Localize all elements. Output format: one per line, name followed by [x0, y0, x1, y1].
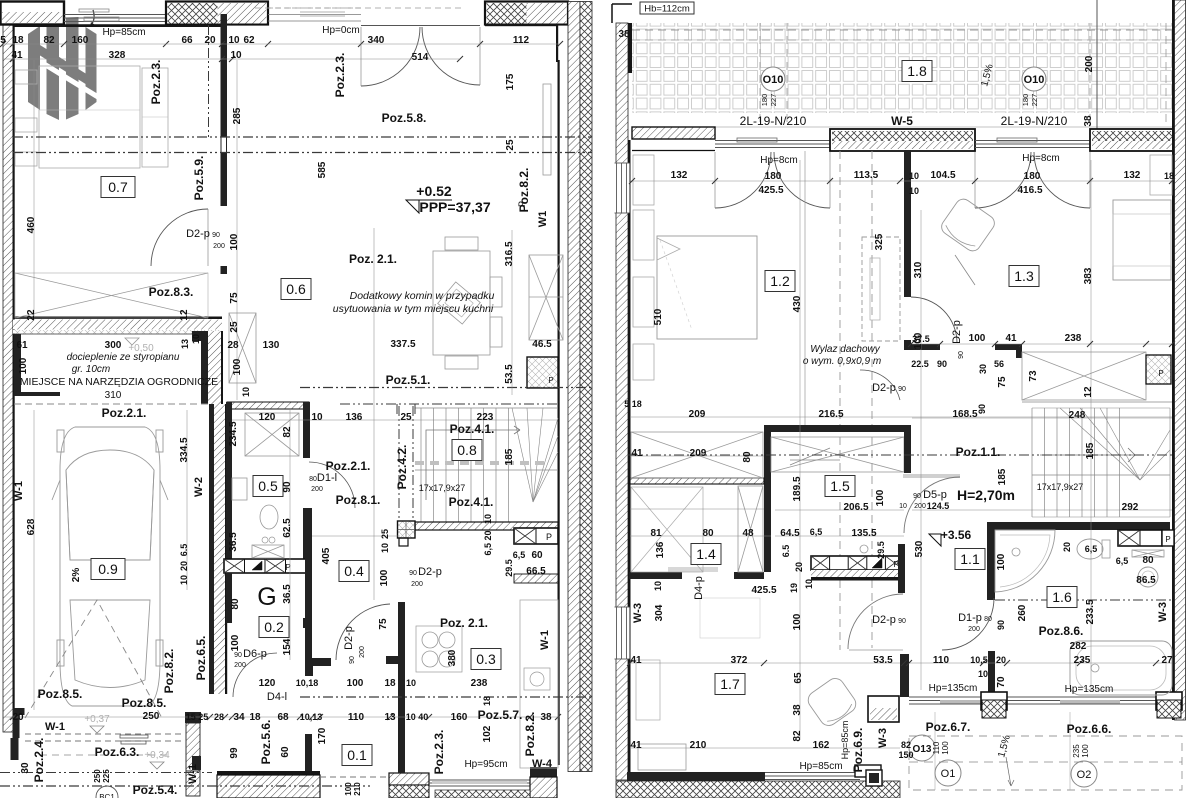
svg-text:210: 210 [353, 782, 362, 796]
bottom window W-4 strip [429, 779, 530, 781]
svg-text:61: 61 [16, 340, 28, 351]
svg-text:64.5: 64.5 [780, 528, 800, 539]
svg-text:41: 41 [630, 740, 642, 751]
bottom wall window band right plan [909, 696, 1156, 698]
svg-text:12: 12 [179, 309, 190, 321]
bottom wall left plan [217, 771, 320, 775]
svg-text:13: 13 [384, 712, 396, 723]
svg-text:310: 310 [105, 390, 122, 401]
svg-text:20: 20 [204, 35, 216, 46]
kitchen X top [771, 437, 904, 472]
svg-text:90: 90 [977, 404, 987, 414]
terrace X Poz.8.3 [15, 273, 208, 318]
svg-text:1.2: 1.2 [770, 273, 790, 289]
svg-text:175: 175 [505, 73, 516, 90]
svg-text:81: 81 [650, 528, 662, 539]
svg-text:36.5: 36.5 [228, 532, 239, 552]
svg-text:248: 248 [1069, 410, 1086, 421]
svg-text:O13: O13 [913, 744, 932, 755]
bathroom 0.5 right wall + door D1-l [303, 402, 310, 458]
svg-text:D6-p: D6-p [243, 648, 267, 660]
svg-text:1.7: 1.7 [720, 676, 740, 692]
svg-text:25: 25 [400, 412, 412, 423]
svg-text:Hp=85cm: Hp=85cm [102, 27, 145, 38]
svg-text:W1: W1 [537, 211, 549, 228]
car in garage [52, 427, 168, 706]
wall under stairs [415, 522, 558, 530]
svg-text:Wylaz dachowy: Wylaz dachowy [810, 344, 880, 355]
kitchen top wall [764, 425, 911, 432]
svg-text:100: 100 [347, 678, 364, 689]
svg-text:180: 180 [765, 171, 782, 182]
svg-text:10: 10 [653, 581, 663, 591]
svg-text:135.5: 135.5 [851, 528, 876, 539]
top wall inner edge line [13, 25, 222, 27]
svg-text:25: 25 [380, 529, 390, 539]
svg-text:425.5: 425.5 [751, 585, 776, 596]
svg-text:110: 110 [933, 655, 950, 666]
svg-text:189.5: 189.5 [792, 476, 803, 501]
svg-text:180: 180 [760, 94, 769, 107]
svg-text:D4-l: D4-l [267, 691, 287, 703]
svg-text:90: 90 [913, 493, 921, 500]
svg-text:2L-19-N/210: 2L-19-N/210 [1001, 114, 1068, 128]
door D2-p to 1.3 [911, 297, 957, 343]
svg-text:62.5: 62.5 [282, 518, 293, 538]
svg-text:0.1: 0.1 [347, 747, 367, 763]
bath 1.6 door D1-p [942, 598, 994, 650]
svg-text:W-1: W-1 [45, 721, 65, 733]
svg-text:328: 328 [109, 50, 126, 61]
svg-text:2%: 2% [71, 568, 82, 583]
svg-text:200: 200 [1084, 55, 1095, 72]
svg-text:585: 585 [317, 161, 328, 178]
svg-text:20: 20 [12, 712, 24, 723]
eaves line above top wall [255, 7, 462, 9]
svg-text:Poz.2.3.: Poz.2.3. [333, 53, 347, 98]
bathroom 0.5 fixtures [232, 478, 247, 500]
svg-text:Poz.8.5.: Poz.8.5. [122, 696, 167, 710]
garage top dashed opening [14, 403, 209, 405]
step corner top right [485, 24, 558, 26]
svg-text:227: 227 [769, 94, 778, 107]
svg-text:25: 25 [229, 321, 240, 333]
svg-text:W-3: W-3 [877, 728, 889, 748]
logo monogram [28, 17, 97, 120]
svg-text:102: 102 [482, 725, 493, 742]
svg-text:10,13: 10,13 [300, 712, 323, 722]
dashed wardrobe corridor [862, 237, 900, 341]
svg-text:O2: O2 [1077, 769, 1092, 781]
svg-text:19: 19 [789, 583, 799, 593]
svg-text:6,5: 6,5 [1116, 556, 1129, 566]
svg-text:10: 10 [311, 412, 323, 423]
svg-text:200: 200 [234, 662, 246, 669]
svg-text:41: 41 [1005, 333, 1017, 344]
svg-text:154: 154 [282, 638, 293, 655]
P column right band [514, 528, 558, 544]
svg-text:18: 18 [482, 696, 492, 706]
corridor 1.1 left wall [987, 530, 995, 600]
svg-text:100: 100 [229, 233, 240, 250]
svg-text:90: 90 [958, 351, 965, 359]
RIGHT PLAN west exterior wall [616, 23, 628, 780]
svg-text:210: 210 [690, 740, 707, 751]
central wall x305 [305, 508, 312, 658]
svg-text:90: 90 [282, 481, 293, 493]
svg-text:0.8: 0.8 [457, 442, 477, 458]
svg-text:Poz.5.7.: Poz.5.7. [478, 708, 523, 722]
svg-text:170: 170 [317, 727, 328, 744]
svg-text:10: 10 [909, 171, 919, 181]
svg-text:75: 75 [229, 292, 240, 304]
svg-text:100: 100 [1081, 744, 1090, 758]
armchair rotated 0.6 [438, 282, 481, 324]
bathtub Poz.8.6 [1070, 641, 1172, 695]
svg-text:17x17,9x27: 17x17,9x27 [419, 483, 466, 493]
svg-text:Poz.2.4.: Poz.2.4. [32, 738, 46, 783]
terrace dashed inner boundary [759, 23, 761, 127]
1.7 bottom wall [627, 772, 765, 781]
svg-text:80: 80 [1142, 555, 1154, 566]
svg-text:38: 38 [618, 29, 630, 40]
svg-text:0.7: 0.7 [108, 179, 128, 195]
svg-text:162: 162 [813, 740, 830, 751]
svg-text:90: 90 [409, 570, 417, 577]
insulated block top 1 [166, 2, 268, 25]
svg-text:gr. 10cm: gr. 10cm [72, 364, 111, 375]
svg-text:200: 200 [968, 626, 980, 633]
svg-text:20: 20 [1062, 542, 1072, 552]
closet X near 130 [229, 313, 256, 383]
room boundary thin line 0.6/0.4 [373, 228, 375, 600]
svg-text:100: 100 [18, 357, 29, 374]
window W1 marking [543, 84, 551, 175]
svg-text:D2-p: D2-p [343, 626, 355, 650]
svg-text:18: 18 [12, 35, 24, 46]
garage right wall [209, 404, 214, 694]
svg-text:o wym. 0,9x0,9 m: o wym. 0,9x0,9 m [803, 356, 881, 367]
svg-text:Hp=95cm: Hp=95cm [464, 759, 507, 770]
top-left corner block [1, 2, 65, 25]
svg-text:0.5: 0.5 [258, 478, 278, 494]
svg-text:36.5: 36.5 [282, 584, 293, 604]
svg-text:H=2,70m: H=2,70m [957, 487, 1015, 503]
insulated block top 2 [485, 2, 568, 25]
svg-text:200: 200 [311, 486, 323, 493]
svg-text:P: P [548, 376, 553, 385]
svg-text:334.5: 334.5 [179, 437, 190, 462]
svg-text:112: 112 [513, 35, 530, 46]
svg-text:41: 41 [631, 448, 643, 459]
svg-text:Poz.2.1.: Poz.2.1. [326, 459, 371, 473]
top opening Hp=0cm [268, 14, 361, 16]
svg-text:G: G [257, 583, 276, 611]
svg-text:O1: O1 [941, 768, 956, 780]
table + chairs room 0.6 [433, 251, 490, 355]
svg-text:132: 132 [1124, 170, 1141, 181]
svg-text:Hp=135cm: Hp=135cm [1065, 684, 1114, 695]
svg-text:82: 82 [901, 740, 911, 750]
chimney square P room 0.6 [527, 357, 558, 388]
svg-text:180: 180 [1021, 94, 1030, 107]
svg-text:209: 209 [690, 448, 707, 459]
svg-text:Poz.2.3.: Poz.2.3. [432, 730, 446, 775]
Hb box top [640, 2, 694, 14]
svg-text:10: 10 [406, 678, 416, 688]
svg-text:Poz.2.1.: Poz.2.1. [102, 406, 147, 420]
svg-text:D2-p: D2-p [418, 566, 442, 578]
svg-text:D1-l: D1-l [317, 472, 337, 484]
svg-text:310: 310 [913, 261, 924, 278]
svg-text:227: 227 [1030, 94, 1039, 107]
wardrobe wall 1.2 bottom [630, 478, 764, 484]
svg-text:D5-p: D5-p [923, 489, 947, 501]
svg-text:25: 25 [505, 139, 516, 151]
svg-text:18: 18 [384, 678, 396, 689]
interior wall 0.7/hall vertical [221, 14, 228, 206]
svg-text:628: 628 [26, 518, 37, 535]
svg-text:20: 20 [794, 562, 804, 572]
svg-text:82: 82 [282, 426, 293, 438]
svg-text:10: 10 [899, 503, 907, 510]
svg-text:O10: O10 [763, 74, 784, 86]
svg-text:10: 10 [483, 514, 493, 524]
svg-text:10: 10 [179, 575, 189, 585]
svg-text:530: 530 [914, 540, 925, 557]
svg-text:100: 100 [913, 332, 924, 349]
svg-text:316.5: 316.5 [504, 241, 515, 266]
svg-text:Poz.8.1.: Poz.8.1. [336, 493, 381, 507]
svg-text:Poz.5.9.: Poz.5.9. [192, 156, 206, 201]
svg-text:6,5 20: 6,5 20 [483, 530, 493, 555]
driveway dashed triangle [25, 600, 162, 718]
svg-text:Poz.1.1.: Poz.1.1. [956, 445, 1001, 459]
bottom vertical wall x398 [398, 602, 405, 773]
svg-text:185: 185 [997, 468, 1008, 485]
svg-text:Poz.5.1.: Poz.5.1. [386, 373, 431, 387]
svg-text:38: 38 [540, 712, 552, 723]
svg-text:216.5: 216.5 [818, 409, 843, 420]
stairs 0.8 [420, 408, 422, 522]
svg-text:150: 150 [898, 750, 913, 760]
svg-text:56: 56 [994, 359, 1004, 369]
svg-text:282: 282 [1070, 641, 1087, 652]
svg-text:430: 430 [792, 295, 803, 312]
1.4 closet X left [631, 487, 703, 572]
door D6-p [233, 653, 277, 697]
svg-text:100: 100 [379, 569, 390, 586]
south wall of room 0.7 + insulation [13, 317, 222, 320]
shower 1.1? small table [700, 598, 760, 638]
svg-text:P: P [893, 560, 898, 569]
svg-text:Poz.4.1.: Poz.4.1. [450, 422, 495, 436]
svg-text:60: 60 [531, 550, 543, 561]
svg-text:Poz. 2.1.: Poz. 2.1. [440, 616, 488, 630]
svg-text:PPP=37,37: PPP=37,37 [419, 199, 490, 215]
svg-text:1.8: 1.8 [907, 63, 927, 79]
svg-text:28: 28 [214, 712, 224, 722]
svg-text:O10: O10 [1024, 74, 1045, 86]
svg-text:1.3: 1.3 [1014, 268, 1034, 284]
svg-text:124.5: 124.5 [927, 501, 950, 511]
svg-text:53.5: 53.5 [873, 655, 893, 666]
bed room 0.7 [39, 66, 140, 168]
kitchen/1.4 vertical wall [764, 432, 771, 572]
P shaft band [224, 559, 306, 573]
svg-text:+0,37: +0,37 [84, 714, 110, 725]
svg-text:292: 292 [1122, 502, 1139, 513]
svg-text:Poz.4.1.: Poz.4.1. [449, 495, 494, 509]
svg-text:136: 136 [346, 412, 363, 423]
svg-text:BC1: BC1 [99, 793, 115, 798]
tool room walls [14, 334, 21, 396]
svg-text:132: 132 [671, 170, 688, 181]
svg-text:233.5: 233.5 [1085, 599, 1096, 624]
svg-text:10,18: 10,18 [296, 678, 319, 688]
svg-text:10: 10 [228, 35, 240, 46]
svg-text:10,5: 10,5 [970, 655, 988, 665]
svg-text:86.5: 86.5 [1136, 575, 1156, 586]
svg-text:110: 110 [932, 741, 941, 754]
corridor 1.1 top wall [987, 522, 1170, 530]
svg-text:D2-p: D2-p [186, 228, 210, 240]
bath 1.6 fixtures [995, 530, 1055, 592]
furniture marks above top wall [79, 9, 109, 12]
svg-text:90: 90 [937, 359, 947, 369]
svg-text:0.6: 0.6 [286, 281, 306, 297]
svg-text:34: 34 [233, 712, 245, 723]
svg-text:0.2: 0.2 [264, 619, 284, 635]
svg-text:10: 10 [909, 186, 919, 196]
balcony door 2 [975, 140, 1090, 142]
svg-text:68: 68 [277, 712, 289, 723]
kitchen X wardrobe right wall [529, 255, 563, 340]
svg-text:185: 185 [504, 448, 515, 465]
bottom piers [981, 692, 1007, 710]
svg-text:325: 325 [874, 233, 885, 250]
entry stub wall bottom-left plan [185, 712, 201, 723]
svg-text:185: 185 [1085, 442, 1096, 459]
svg-text:+0,34: +0,34 [144, 750, 170, 761]
svg-text:66.5: 66.5 [526, 566, 546, 577]
svg-text:38: 38 [1083, 115, 1094, 127]
svg-text:120: 120 [259, 412, 276, 423]
svg-text:80: 80 [309, 476, 317, 483]
svg-text:22.5: 22.5 [911, 359, 929, 369]
svg-text:P: P [517, 201, 527, 207]
W-5 wall band right insulated [1090, 129, 1181, 151]
svg-text:100: 100 [941, 741, 950, 755]
svg-text:D2-p: D2-p [951, 320, 963, 344]
svg-text:82: 82 [792, 730, 803, 742]
kitchen counter bottom cellband [811, 556, 904, 570]
svg-text:D1-p: D1-p [958, 612, 982, 624]
svg-text:29.5: 29.5 [876, 541, 886, 559]
svg-text:99: 99 [229, 747, 240, 759]
svg-text:28: 28 [227, 340, 239, 351]
svg-text:180: 180 [1024, 171, 1041, 182]
svg-text:W-1: W-1 [187, 764, 199, 784]
svg-text:2L-19-N/210: 2L-19-N/210 [740, 114, 807, 128]
svg-text:80: 80 [984, 616, 992, 623]
wall between corridor and 1.3 [904, 150, 911, 297]
svg-text:234.5: 234.5 [228, 421, 239, 446]
svg-text:Hp=8cm: Hp=8cm [1022, 153, 1060, 164]
svg-text:Poz.4.2.: Poz.4.2. [395, 445, 409, 490]
svg-text:80: 80 [230, 598, 241, 610]
svg-text:337.5: 337.5 [390, 339, 415, 350]
wardrobe X bottom of 1.3 [1022, 352, 1146, 400]
svg-text:P: P [546, 532, 552, 542]
kitchen right wall [904, 432, 911, 473]
svg-text:usytuowania w tym miejscu kuch: usytuowania w tym miejscu kuchni [333, 303, 494, 315]
svg-text:90: 90 [349, 656, 356, 664]
svg-text:W-5: W-5 [891, 114, 913, 128]
svg-text:29.5: 29.5 [504, 559, 514, 577]
svg-text:80: 80 [742, 451, 753, 463]
svg-text:90: 90 [898, 618, 906, 625]
svg-text:5: 5 [0, 35, 6, 46]
svg-text:P: P [1158, 369, 1163, 378]
svg-text:340: 340 [368, 35, 385, 46]
W-5 wall band left [632, 127, 715, 139]
svg-text:10: 10 [241, 387, 251, 397]
svg-text:100: 100 [792, 613, 803, 630]
svg-text:D2-p: D2-p [872, 614, 896, 626]
svg-text:Hp=85cm: Hp=85cm [840, 721, 850, 760]
svg-text:460: 460 [26, 216, 37, 233]
svg-text:235: 235 [1074, 655, 1091, 666]
svg-text:1.4: 1.4 [696, 546, 716, 562]
svg-text:41: 41 [11, 50, 23, 61]
svg-text:Hb=112cm: Hb=112cm [644, 4, 690, 15]
bed 1.3 right [1113, 200, 1171, 280]
svg-text:W-1: W-1 [539, 630, 551, 650]
svg-text:235: 235 [1072, 744, 1081, 758]
patio door arcs 514 [361, 27, 420, 86]
balcony door 1 [715, 140, 830, 142]
svg-text:200: 200 [213, 243, 225, 250]
svg-text:10: 10 [230, 50, 242, 61]
svg-text:238: 238 [1065, 333, 1082, 344]
svg-text:53.5: 53.5 [504, 364, 515, 384]
door D5-p [903, 474, 960, 478]
svg-text:405: 405 [321, 547, 332, 564]
svg-text:70: 70 [996, 676, 1007, 688]
svg-text:100: 100 [996, 553, 1007, 570]
terrace 1.8 tile grid [632, 23, 1172, 113]
svg-text:1.1: 1.1 [960, 551, 980, 567]
svg-text:60: 60 [280, 746, 291, 758]
svg-text:130: 130 [263, 340, 280, 351]
svg-text:P: P [1165, 535, 1170, 544]
svg-text:6.5: 6.5 [179, 544, 189, 557]
svg-text:46.5: 46.5 [532, 339, 552, 350]
svg-text:238: 238 [471, 678, 488, 689]
svg-text:113.5: 113.5 [854, 170, 879, 181]
svg-text:Poz.6.6.: Poz.6.6. [1067, 722, 1112, 736]
svg-text:Poz.5.4.: Poz.5.4. [133, 783, 178, 797]
svg-text:73: 73 [1028, 370, 1039, 382]
svg-text:100: 100 [969, 333, 986, 344]
svg-text:200: 200 [359, 646, 366, 658]
svg-text:30: 30 [978, 364, 988, 374]
wardrobe X 1.2 [631, 432, 763, 478]
roof slope dashed lines [839, 151, 841, 650]
svg-text:Poz.8.3.: Poz.8.3. [149, 285, 194, 299]
svg-text:425.5: 425.5 [758, 185, 783, 196]
